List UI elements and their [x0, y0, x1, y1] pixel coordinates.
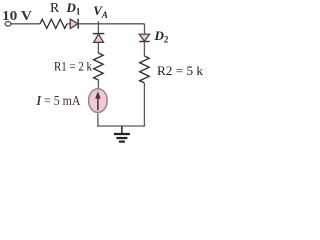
resistor R	[40, 19, 67, 28]
diode (left branch, pointing up): cathode bar	[93, 33, 105, 35]
svg-text:I = 5 mA: I = 5 mA	[36, 94, 82, 109]
wire top-right corner down to D2	[144, 24, 146, 34]
wire D1 to top-right corner	[78, 23, 144, 25]
bottom wire	[97, 125, 145, 127]
wire VA node down to diode	[97, 24, 99, 34]
svg-text:R1 = 2 k: R1 = 2 k	[54, 59, 92, 74]
svg-text:10 V: 10 V	[2, 9, 32, 24]
svg-text:R2 = 5 k: R2 = 5 k	[157, 63, 203, 78]
resistor R1	[94, 53, 104, 80]
ground	[121, 126, 123, 134]
diode D1	[70, 19, 78, 28]
diode D2 (pointing down)	[139, 34, 149, 41]
wire D2 to R2	[143, 42, 145, 57]
wire current source to bottom	[97, 113, 99, 126]
wire resistor to diode D1	[67, 23, 70, 25]
wire diode to R1	[97, 42, 99, 53]
terminal (10 V source)	[5, 22, 11, 27]
wire terminal to resistor R	[11, 23, 40, 25]
wire R2 to bottom-right corner	[143, 83, 145, 126]
wire R1 to current source	[97, 80, 99, 89]
svg-text:R: R	[50, 0, 60, 15]
resistor R2	[140, 56, 150, 83]
current source I	[89, 89, 108, 113]
node A tick	[97, 21, 99, 24]
diode (left branch) triangle	[94, 34, 104, 42]
